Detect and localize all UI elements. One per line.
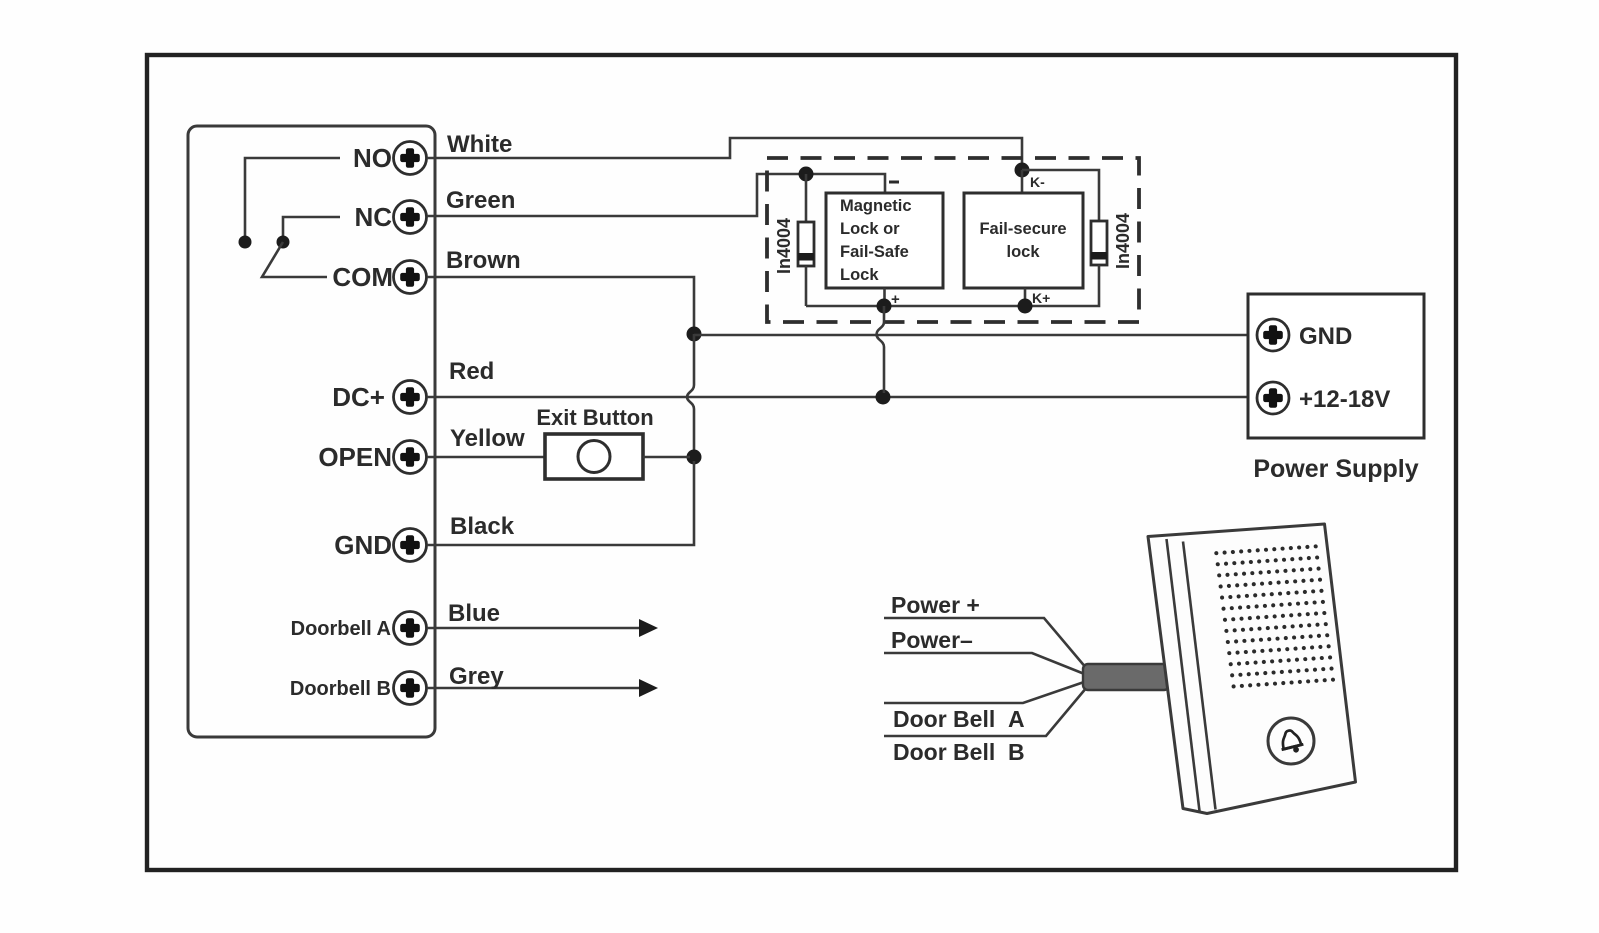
diode In4004 (right) — [1091, 221, 1107, 265]
svg-text:K+: K+ — [1032, 290, 1050, 306]
relay NO branch wire — [245, 158, 340, 238]
svg-text:Black: Black — [450, 513, 515, 540]
wire Yellow: OPEN to exit button — [427, 456, 545, 459]
label Door Bell A — [893, 706, 1025, 732]
svg-text:GND: GND — [334, 530, 392, 560]
wire magnetic lock bottom to plus node — [883, 288, 886, 306]
svg-text:Power +: Power + — [891, 592, 980, 618]
svg-text:Yellow: Yellow — [450, 425, 525, 452]
access control unit — [188, 126, 435, 737]
svg-text:NO: NO — [353, 143, 392, 173]
svg-text:In4004: In4004 — [774, 218, 794, 274]
label K- — [1030, 174, 1045, 190]
wire fail-secure bottom to K+ node — [1024, 288, 1027, 306]
svg-text:Exit Button: Exit Button — [536, 405, 653, 430]
terminal Doorbell B — [290, 672, 427, 705]
label Red — [449, 358, 494, 385]
label Door Bell B — [893, 739, 1025, 765]
svg-text:DC+: DC+ — [332, 382, 385, 412]
wire Grey: Doorbell B with arrow — [427, 679, 658, 697]
wire Black: GND up to exit-button node — [427, 461, 694, 545]
doorbell speaker grille — [1214, 544, 1335, 688]
wire COM continues down to exit-button node (hop over +12V wire) — [687, 334, 694, 453]
doorbell side ridge lines — [1167, 539, 1216, 811]
label Blue — [448, 600, 500, 627]
label minus terminal — [889, 181, 899, 184]
wire diode left bottom to bus — [805, 266, 808, 306]
magnetic lock / fail-safe lock — [826, 193, 943, 288]
terminal Doorbell A — [291, 612, 427, 645]
svg-text:NC: NC — [354, 202, 392, 232]
node K+ junction — [1018, 299, 1033, 314]
fail-secure lock — [964, 193, 1083, 288]
svg-text:Green: Green — [446, 187, 515, 214]
svg-text:Fail-secure: Fail-secure — [979, 220, 1066, 238]
wire Red: DC+ to power supply +12-18V — [427, 396, 1257, 399]
svg-text:Magnetic: Magnetic — [840, 197, 912, 215]
relay NC branch wire — [283, 217, 340, 238]
wire Brown: COM down to GND bus — [427, 277, 694, 330]
doorbell button (bell icon) — [1268, 718, 1314, 764]
node NO contact — [239, 236, 252, 249]
node NC contact — [277, 236, 290, 249]
svg-text:COM: COM — [332, 262, 393, 292]
label K+ — [1032, 290, 1050, 306]
label In4004 (right) — [1113, 213, 1133, 269]
svg-text:Doorbell A: Doorbell A — [291, 618, 391, 640]
wire Door Bell A to doorbell cable — [884, 681, 1087, 703]
svg-text:GND: GND — [1299, 323, 1352, 350]
label Power - — [891, 627, 973, 653]
wire GND bus to power supply GND — [694, 334, 1257, 337]
svg-text:In4004: In4004 — [1113, 213, 1133, 269]
svg-text:Power–: Power– — [891, 627, 973, 653]
doorbell cable — [1083, 664, 1169, 690]
wire K- node to fail-secure lock top — [1021, 170, 1024, 193]
label White — [447, 131, 512, 158]
terminal GND (power supply) — [1257, 319, 1352, 351]
svg-text:Lock or: Lock or — [840, 220, 900, 238]
label Brown — [446, 247, 521, 274]
relay common arm wire (COM) — [262, 242, 327, 277]
terminal NC — [354, 201, 426, 234]
label Power Supply — [1253, 455, 1418, 483]
terminal COM — [332, 261, 426, 294]
node lock minus junction — [799, 167, 814, 182]
svg-text:Lock: Lock — [840, 266, 879, 284]
svg-text:Grey: Grey — [449, 663, 504, 690]
label Black — [450, 513, 515, 540]
svg-text:Red: Red — [449, 358, 494, 385]
doorbell unit body — [1148, 524, 1356, 814]
wire Power - to doorbell cable — [884, 653, 1087, 675]
terminal OPEN — [318, 441, 426, 474]
svg-text:K-: K- — [1030, 174, 1045, 190]
svg-text:+12-18V: +12-18V — [1299, 386, 1390, 413]
node K- junction — [1015, 163, 1030, 178]
diode In4004 (left) — [798, 222, 814, 266]
wire plus node down to +12V wire (hop over GND bus) — [877, 306, 885, 393]
svg-text:Power Supply: Power Supply — [1253, 455, 1418, 483]
wire Green: NC to lock minus rail — [427, 174, 885, 216]
label In4004 (left) — [774, 218, 794, 274]
node lock plus junction — [877, 299, 892, 314]
wire minus node to diode In4004 left — [805, 174, 808, 222]
wire Door Bell B to doorbell cable — [884, 687, 1087, 736]
svg-text:OPEN: OPEN — [318, 442, 392, 472]
svg-text:Door Bell B: Door Bell B — [893, 739, 1025, 765]
label Green — [446, 187, 515, 214]
label Yellow — [450, 425, 525, 452]
svg-text:Doorbell B: Doorbell B — [290, 678, 391, 700]
svg-text:Fail-Safe: Fail-Safe — [840, 243, 909, 261]
junction exit button output node — [687, 450, 702, 465]
svg-text:White: White — [447, 131, 512, 158]
svg-text:lock: lock — [1006, 243, 1040, 261]
wire K- node to diode In4004 right — [1022, 170, 1099, 221]
svg-text:Door Bell A: Door Bell A — [893, 706, 1025, 732]
lock assembly dashed enclosure — [767, 158, 1139, 322]
junction lock plus on +12V wire — [876, 390, 891, 405]
wire White: NO to K- node — [427, 138, 1022, 166]
exit button SW1 — [545, 434, 643, 479]
terminal +12-18V (power supply) — [1257, 382, 1390, 414]
terminal NO — [353, 142, 427, 175]
power supply box — [1248, 294, 1424, 438]
terminal GND — [334, 529, 426, 562]
wire bottom bus of lock assembly — [806, 265, 1099, 306]
wire Blue: Doorbell A with arrow — [427, 619, 658, 637]
svg-text:Brown: Brown — [446, 247, 521, 274]
label Power + — [891, 592, 980, 618]
junction COM / GND bus — [687, 327, 702, 342]
label Grey — [449, 663, 504, 690]
label Exit Button — [536, 405, 653, 430]
label plus terminal — [891, 291, 900, 308]
svg-text:Blue: Blue — [448, 600, 500, 627]
wire Power + to doorbell cable — [884, 618, 1087, 669]
wire exit button to node — [643, 456, 690, 459]
terminal DC+ — [332, 381, 426, 414]
